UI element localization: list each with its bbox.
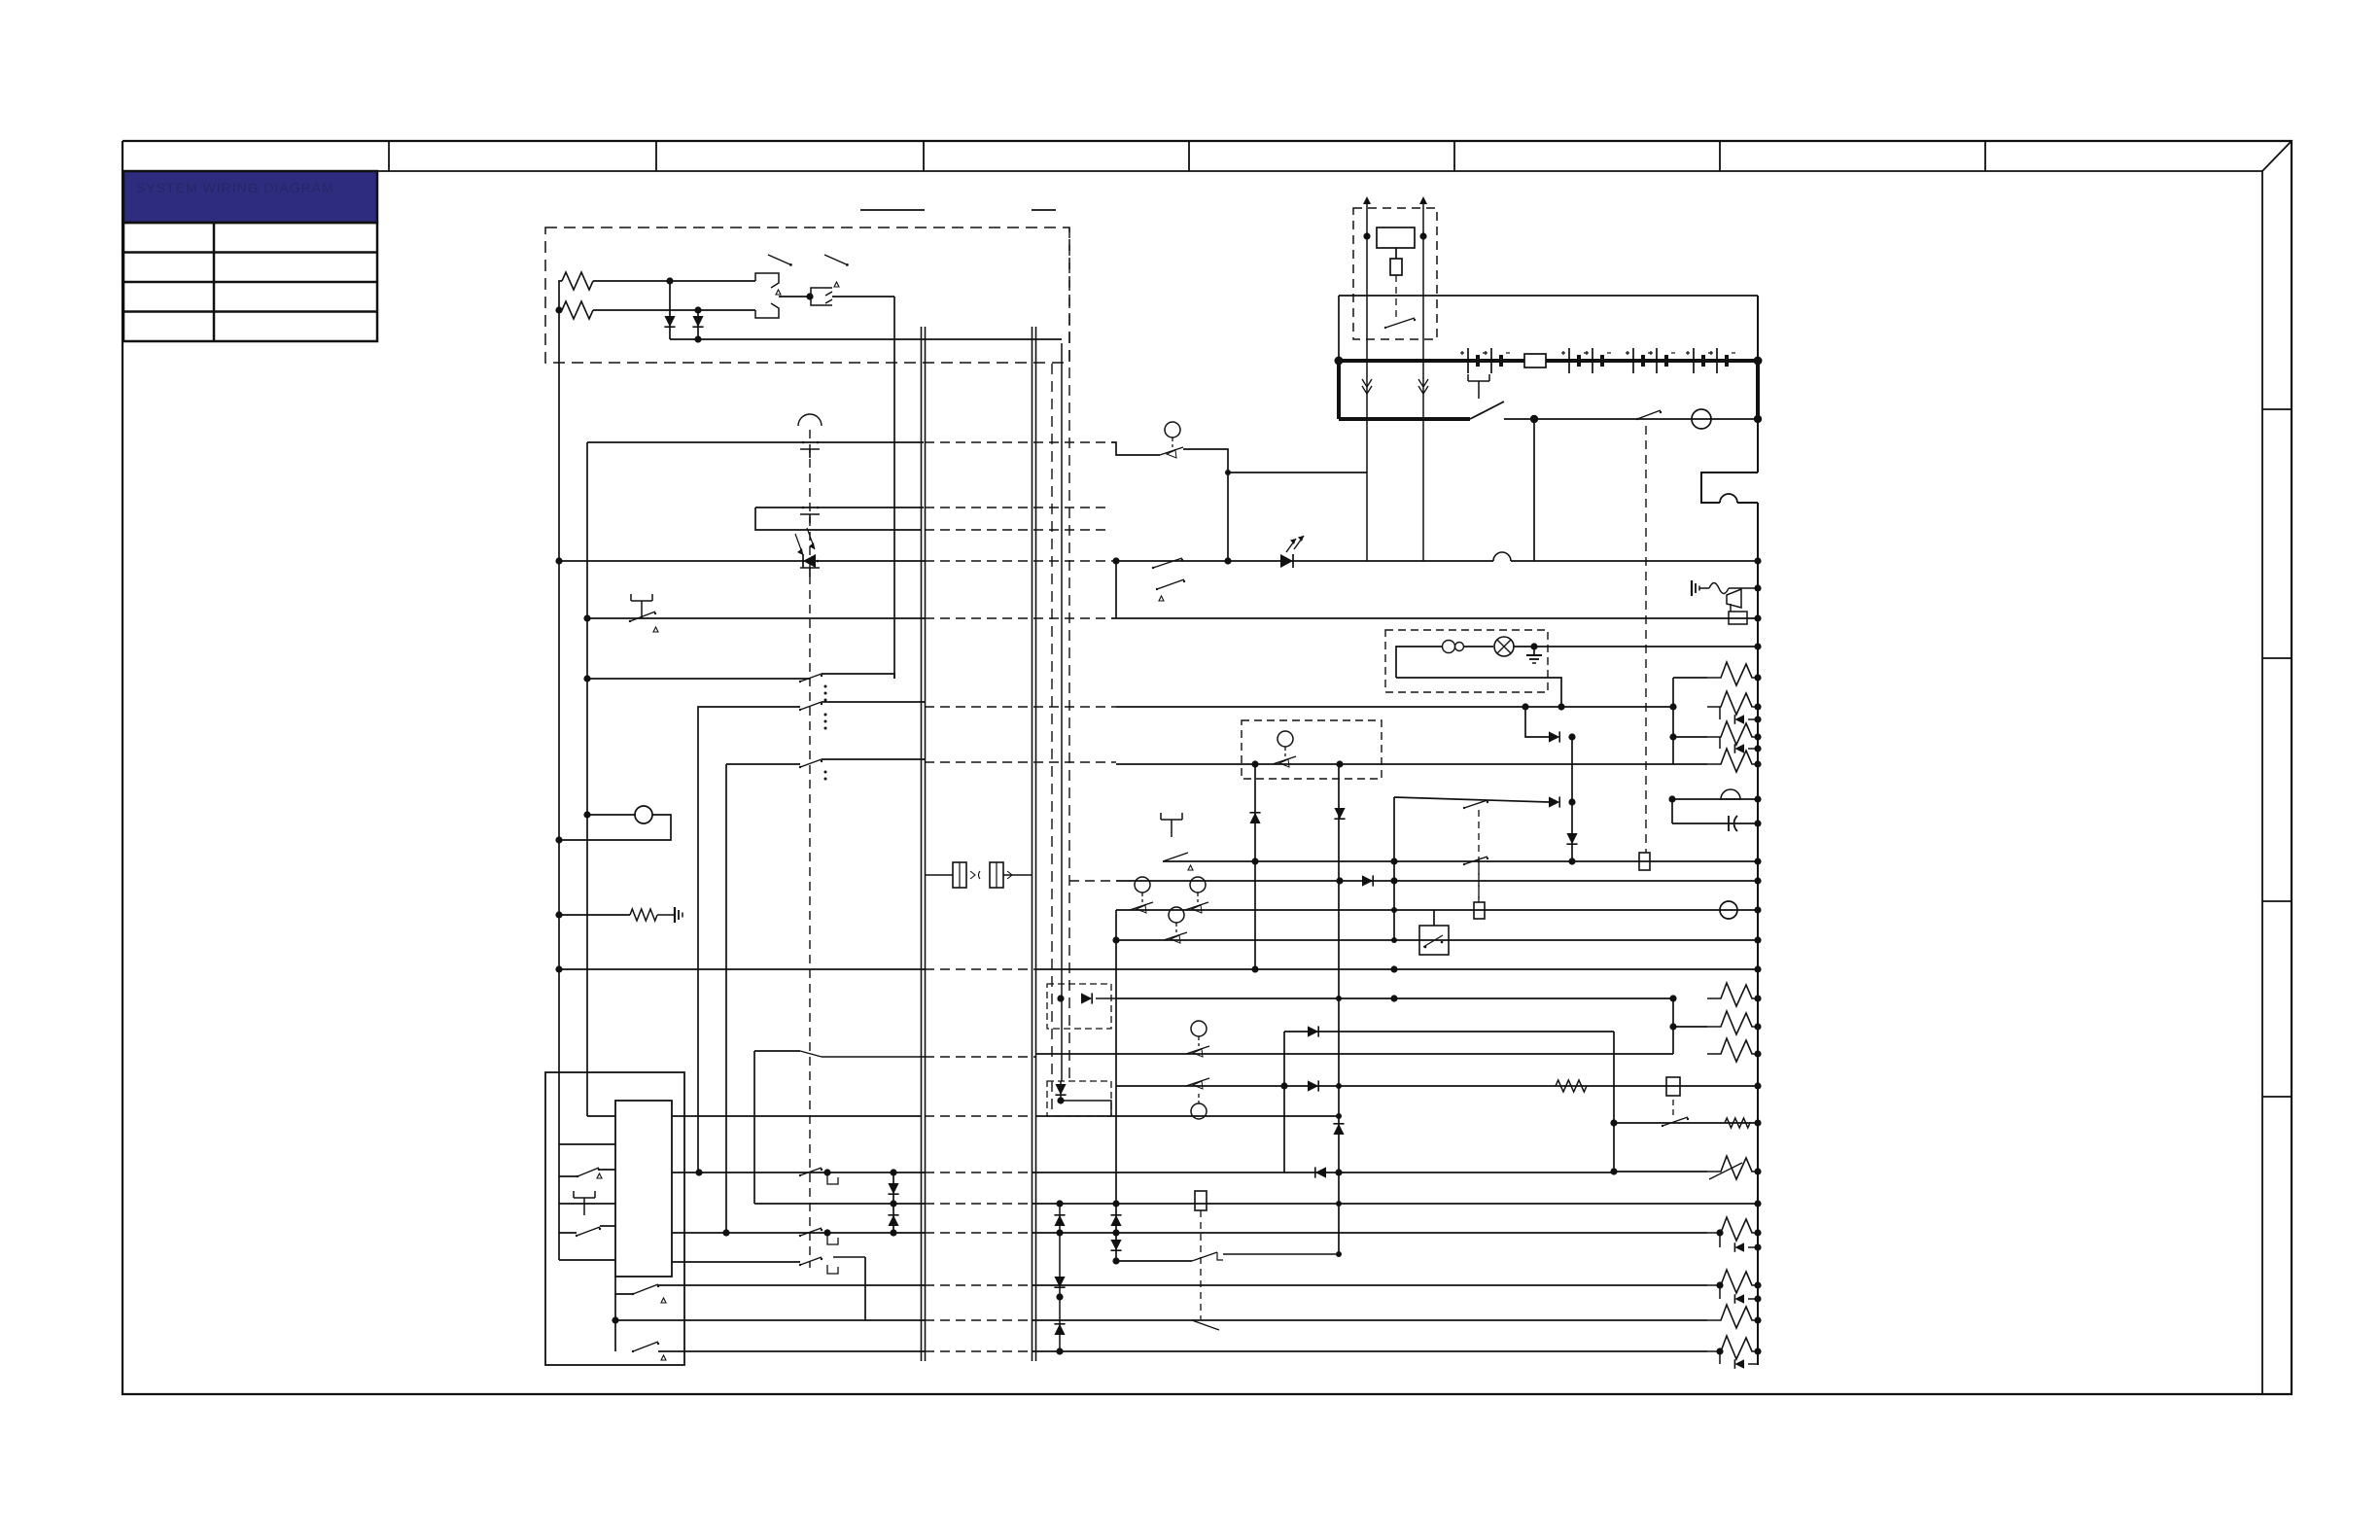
- bulkhead connector pair 1: [922, 327, 926, 1361]
- wire wiper feed drop: [893, 297, 895, 679]
- node starter right: [1419, 232, 1426, 239]
- wiper circuit dashed enclosure: [545, 227, 1069, 363]
- switch S1331: [632, 1284, 659, 1295]
- wire R1 left lead: [559, 281, 562, 310]
- frame right margin tick 3: [2262, 900, 2292, 902]
- wire x1091 lower: [1060, 1081, 1062, 1101]
- wire net786 dashed: [925, 761, 1116, 763]
- oil sender 2: [1164, 907, 1187, 943]
- wire net1358 b: [1032, 1319, 1707, 1321]
- diode D1390: [1734, 1359, 1744, 1369]
- net label tick 1: [860, 209, 925, 211]
- linkage contact 698: [799, 674, 822, 682]
- svg-text:SYSTEM WIRING DIAGRAM: SYSTEM WIRING DIAGRAM: [136, 180, 334, 195]
- node bus431 right: [1754, 415, 1762, 423]
- node net665 right: [1754, 643, 1761, 649]
- switch S1390: [632, 1342, 659, 1352]
- node net1268 c: [1112, 1229, 1119, 1236]
- wire net698 left: [587, 678, 810, 680]
- node x1090 a: [1056, 1200, 1063, 1207]
- pack1 diode stub a: [1720, 707, 1758, 719]
- actuator mark wiper switch: [1159, 596, 1164, 601]
- harness dashed bus 2: [1068, 227, 1070, 1081]
- ECU module box: [615, 1101, 672, 1277]
- fuse main: [1524, 354, 1546, 367]
- actuator S1390: [661, 1355, 666, 1360]
- diode D729: [1549, 731, 1559, 742]
- node D1 top: [666, 277, 673, 284]
- node pack2 mid: [1669, 1023, 1676, 1030]
- wire connector out: [1003, 874, 1032, 876]
- wire key drop: [1533, 419, 1535, 561]
- chevron mark right: [1418, 379, 1428, 394]
- fuse rings: [1443, 641, 1464, 653]
- starter arrow left: [1363, 196, 1371, 236]
- wire net636 left: [587, 617, 925, 619]
- node DboxA in: [1057, 995, 1064, 1001]
- frame top strip divider 2: [655, 141, 657, 171]
- wire net1268 a: [672, 1232, 925, 1234]
- R1390 diode stub: [1720, 1351, 1758, 1364]
- node net825 right: [1568, 798, 1575, 805]
- wire net1148 dashed: [925, 1115, 1032, 1117]
- wire net786 left: [726, 763, 800, 765]
- node net886 b: [1390, 857, 1397, 864]
- wiper connector upper half: [755, 273, 779, 288]
- actuator S1331: [661, 1298, 666, 1303]
- node x1377 1117: [1336, 1083, 1342, 1089]
- wire x1617 drop: [1571, 737, 1573, 861]
- battery cell group 2: [1561, 348, 1588, 373]
- linkage contact 1268: [799, 1228, 822, 1237]
- node res941 left: [555, 911, 562, 918]
- ECU loop A bottom: [559, 1203, 615, 1205]
- wire motor return: [559, 815, 671, 840]
- contact 1297: [1192, 1252, 1223, 1261]
- wire net577 dashed mid: [925, 560, 1116, 562]
- pushbutton PB2: [1161, 813, 1182, 837]
- drawing frame outer border: [122, 141, 2292, 1394]
- wire net936: [1116, 909, 1758, 911]
- ground return bus thick: [1756, 361, 1760, 419]
- wire loop 1358: [614, 1294, 616, 1351]
- node net636 left: [583, 614, 590, 621]
- fuse F886: [1639, 853, 1650, 870]
- node x1660 1155: [1610, 1119, 1617, 1126]
- node pack2 bus c: [1754, 1050, 1761, 1057]
- node lamp ground: [1530, 643, 1537, 649]
- node x1090 d: [1056, 1347, 1063, 1354]
- R1268 diode stub: [1720, 1233, 1758, 1247]
- wire net1084 mid: [1035, 1053, 1673, 1055]
- node x1090 c: [1056, 1293, 1063, 1300]
- wire x1378 drop: [1338, 764, 1340, 1254]
- wire motor838: [587, 814, 636, 816]
- node net577 left: [555, 557, 562, 564]
- resistor pack2 r3: [1707, 1038, 1758, 1062]
- wire battery feed thick: [1339, 359, 1758, 363]
- linkage contact 1084: [800, 1051, 822, 1057]
- diode D1: [664, 316, 675, 327]
- starter arrow right: [1419, 196, 1427, 236]
- title table row line 2: [123, 281, 377, 284]
- node net1206 e: [1335, 1169, 1342, 1175]
- wire x776 drop: [753, 1051, 755, 1204]
- actuator PB2: [1188, 865, 1193, 870]
- wire net486: [1228, 472, 1367, 473]
- wire x1321 drop: [1283, 1032, 1285, 1172]
- node net636 right: [1754, 614, 1761, 621]
- frame right margin tick 1: [2262, 408, 2292, 410]
- node net997 right: [1754, 965, 1761, 972]
- node net605 right: [1754, 584, 1761, 591]
- wire ammeter line: [1504, 418, 1758, 420]
- frame top strip divider 5: [1453, 141, 1455, 171]
- resistor pack1 r3: [1673, 721, 1758, 745]
- wire net1238 b: [1032, 1203, 1758, 1205]
- contact dots 698: [824, 685, 827, 702]
- starter solenoid body: [1377, 227, 1415, 248]
- wire net1390 dashed: [925, 1350, 1032, 1352]
- node x919 mid: [890, 1200, 896, 1207]
- wire net1206 b: [1032, 1172, 1614, 1173]
- node net1206 d: [1610, 1168, 1617, 1174]
- frame top strip divider 1: [388, 141, 390, 171]
- horn speaker: [1727, 589, 1741, 612]
- linkage tcontact 577: [800, 560, 820, 577]
- wire plug link: [779, 296, 811, 297]
- net label tick 2: [1032, 209, 1056, 211]
- node net577 x1263: [1224, 557, 1231, 564]
- diode x1090 up2: [1054, 1324, 1065, 1335]
- title banner text: [136, 180, 334, 195]
- title table column divider: [213, 223, 216, 341]
- fuel sender symbol: [1273, 731, 1296, 767]
- wire net545 dashed: [925, 529, 1111, 531]
- node battery right: [1754, 357, 1763, 366]
- linkage contact 786: [799, 759, 822, 768]
- pushbutton PB2 contact: [1163, 853, 1188, 861]
- title table row line 3: [123, 310, 377, 313]
- relay linkage 1155: [1672, 1100, 1674, 1118]
- LED indicator 2: [1280, 536, 1304, 568]
- pack1 diode a: [1734, 715, 1744, 724]
- horn dome: [1721, 789, 1740, 799]
- wire net829: [1394, 797, 1549, 802]
- node x919 bot: [890, 1229, 896, 1236]
- ECU loop A top: [559, 1170, 615, 1176]
- wire step 729-758: [1525, 707, 1549, 737]
- linkage contact 729: [799, 702, 822, 711]
- ECU contact B: [576, 1227, 601, 1237]
- linkage contact 1298: [799, 1257, 822, 1266]
- wire net1084 bulkhead: [822, 1056, 925, 1058]
- wire switch drop to 636: [1115, 561, 1117, 618]
- node net1238 a: [1112, 1200, 1119, 1207]
- actuator mark PB1: [653, 627, 658, 632]
- node net786 a: [1251, 760, 1258, 767]
- node net967 right: [1754, 936, 1761, 943]
- node net1027 b: [1669, 995, 1676, 1001]
- diode D906: [1362, 875, 1373, 886]
- wire x1291 drop: [1254, 764, 1256, 969]
- node net577 right: [1754, 557, 1761, 564]
- R1322 diode stub: [1720, 1285, 1758, 1299]
- diode D1206: [1315, 1167, 1326, 1177]
- node net906 a: [1336, 877, 1343, 884]
- washer motor: [1720, 901, 1737, 919]
- wire net455 dashed: [925, 441, 1111, 443]
- wire net729 right: [1116, 706, 1673, 708]
- wire DboxB out: [1061, 1101, 1111, 1116]
- diode x919 down: [888, 1183, 898, 1194]
- node net1297 left: [1112, 1257, 1119, 1264]
- wire plug to right: [832, 296, 894, 297]
- relay contact 1155: [1662, 1117, 1689, 1127]
- wire net967: [1116, 939, 1758, 941]
- resistor R1121: [1556, 1080, 1587, 1092]
- wire x890 drop: [864, 1257, 866, 1320]
- node sender step: [1225, 470, 1231, 475]
- wire net1084 left: [754, 1050, 800, 1052]
- wire sender out: [1183, 449, 1228, 561]
- wire ECU pin 1177: [559, 1143, 615, 1145]
- starter switch linkage: [1395, 275, 1397, 321]
- resistor pack1 r2: [1707, 691, 1758, 715]
- node net886 right: [1754, 857, 1761, 864]
- diode D2: [692, 316, 703, 327]
- node net729 x1569: [1522, 703, 1528, 710]
- junction box outer: [545, 1072, 684, 1365]
- node net906 right: [1754, 877, 1761, 884]
- switch lever S2: [824, 255, 849, 266]
- wire pack1 feeder: [1672, 678, 1674, 764]
- thermistor R2x: [1707, 1156, 1758, 1179]
- frame inner right border: [2261, 171, 2263, 1394]
- node net967 left: [1112, 936, 1119, 943]
- lamp circuit wire: [1396, 647, 1442, 678]
- battery cell group 3: [1626, 348, 1652, 373]
- wire net729 dashed: [925, 706, 1116, 708]
- diode x1090 up1: [1054, 1215, 1065, 1226]
- wire net1148 run: [672, 1115, 922, 1117]
- wire horn2 line: [1672, 798, 1758, 800]
- actuator mark S2: [834, 282, 839, 287]
- node net577 x1148: [1112, 557, 1119, 564]
- node net1206 c: [890, 1169, 896, 1175]
- wire net729 mid: [822, 701, 925, 703]
- node net997 b: [1390, 965, 1397, 972]
- wire cap line: [1672, 822, 1758, 824]
- battery cell group 4: [1686, 348, 1712, 373]
- wire net1206 a: [672, 1172, 925, 1173]
- resistor pack1 r4: [1707, 749, 1758, 772]
- node pack1 bus f: [1754, 760, 1761, 767]
- wire net577 right a: [1116, 560, 1493, 562]
- heater motor: [635, 806, 652, 823]
- resistor pack2 r1: [1707, 983, 1758, 1006]
- wire net636 dashed mid: [925, 617, 1111, 619]
- left bus wire x604: [586, 442, 588, 1116]
- linkage tcontact 522: [800, 507, 820, 523]
- frame top strip divider 4: [1188, 141, 1190, 171]
- wire connector feed: [925, 874, 953, 876]
- node x1377 1238: [1336, 1201, 1342, 1207]
- wire net522 dashed: [925, 507, 1111, 508]
- wire net1238 dashed: [925, 1203, 1032, 1205]
- resistor pack1 r1: [1673, 662, 1758, 685]
- wire net1061: [1284, 1031, 1614, 1032]
- node pack1 bus c: [1754, 716, 1761, 722]
- relay linkage dashed: [1478, 810, 1480, 902]
- actuator mark A: [597, 1173, 602, 1178]
- pack1 diode b: [1734, 744, 1744, 753]
- wire net1322 b: [1032, 1284, 1707, 1286]
- suppressor coil: [1709, 583, 1729, 594]
- starter small body: [1390, 259, 1402, 275]
- ECU loop B top: [559, 1226, 615, 1233]
- pushbutton start: [1468, 374, 1489, 399]
- frame corner diagonal: [2262, 141, 2292, 171]
- wire net1268 dashed: [925, 1232, 1032, 1234]
- node net997 left: [555, 965, 562, 972]
- node net1358 right: [1754, 1316, 1761, 1323]
- wire x1434 vertical: [1393, 797, 1395, 940]
- relay box riser: [1433, 910, 1435, 926]
- node pack1 b: [1669, 733, 1676, 740]
- relay coil 1121: [1666, 1077, 1680, 1096]
- contact jog 1268: [827, 1236, 838, 1244]
- battery cell group 3b: [1649, 348, 1675, 373]
- node net1268 right: [1754, 1229, 1761, 1236]
- frame top strip divider 6: [1719, 141, 1721, 171]
- fuel sender dashed box: [1242, 720, 1382, 779]
- node pack1 bus e: [1754, 745, 1761, 752]
- wire net1121: [1116, 1085, 1758, 1087]
- bulkhead connector pair 2: [1032, 327, 1036, 1361]
- battery cell group 2b: [1585, 348, 1611, 373]
- diode x1148 up: [1110, 1215, 1121, 1226]
- wire res941 gnd: [657, 914, 675, 916]
- node pack1 bus d: [1754, 733, 1761, 740]
- ECU contact A: [577, 1168, 600, 1177]
- starter body stem: [1395, 248, 1397, 259]
- resistor pack2 r2: [1673, 1011, 1758, 1034]
- wire net997 left: [559, 968, 925, 970]
- diode DboxA: [1081, 993, 1092, 1003]
- node x1434 936: [1391, 907, 1397, 913]
- ground bus jog: [1701, 472, 1758, 503]
- interlock contact: [1636, 410, 1662, 420]
- node net1322 right: [1754, 1281, 1761, 1288]
- wire R2 run: [593, 309, 755, 311]
- pushbutton PB1: [631, 594, 652, 618]
- contact jog 1298: [827, 1265, 838, 1274]
- wire ECU pin 1148: [587, 1115, 615, 1117]
- washer sender: [1160, 422, 1183, 458]
- starter dashed enclosure: [1353, 208, 1437, 339]
- title block blue banner: [123, 171, 377, 223]
- wire x1148 collector: [1115, 910, 1117, 1261]
- wire net577 right b: [1511, 560, 1758, 562]
- inline connector pair: [953, 862, 1012, 888]
- node x1377 1290: [1336, 1251, 1342, 1257]
- fuse F936: [1474, 902, 1485, 919]
- wire net522: [755, 507, 924, 508]
- wire net1238 a: [754, 1203, 925, 1205]
- diode x1090 down: [1054, 1277, 1065, 1287]
- wire DboxA out: [1096, 997, 1116, 999]
- wire net786 right: [1116, 763, 1707, 765]
- node D2 top: [694, 306, 701, 313]
- ground G941: [675, 907, 682, 923]
- relay contact 886: [1463, 857, 1488, 865]
- node net1206 b: [823, 1169, 830, 1175]
- linkage contact 1206: [799, 1168, 822, 1176]
- wire net1358 dashed: [925, 1319, 1032, 1321]
- battery cell group 1: [1460, 348, 1487, 373]
- interlock linkage dashed: [1645, 426, 1647, 853]
- wire battery left drop thick: [1337, 361, 1341, 419]
- battery cell group 4b: [1709, 348, 1735, 373]
- node net847 right: [1754, 820, 1761, 826]
- node x1617 top: [1568, 733, 1575, 740]
- LED indicator 1: [795, 528, 816, 568]
- diode up x1291: [1249, 813, 1260, 823]
- wire starter right drop: [1422, 236, 1424, 561]
- wire sender feed corner: [1111, 442, 1160, 455]
- fuse F1297: [1195, 1191, 1207, 1210]
- wire net1148 mid: [1035, 1115, 1339, 1117]
- node net1336 right: [1754, 1295, 1761, 1302]
- starter switch contact: [1384, 318, 1416, 329]
- node horn2 left: [1668, 795, 1675, 802]
- node x1434 967: [1391, 937, 1397, 943]
- relay box: [1419, 926, 1449, 955]
- wire net698 to bulkhead: [822, 674, 894, 679]
- wire net1027: [1116, 997, 1673, 999]
- ground return bus upper: [1757, 296, 1759, 472]
- node pack2 bus a: [1754, 995, 1761, 1001]
- wire net906 dashed: [1069, 880, 1116, 882]
- node net1283 right: [1754, 1243, 1761, 1250]
- harness dashed bus 1: [1051, 364, 1053, 1114]
- linkage tcontact 455: [800, 441, 820, 458]
- wire res941: [559, 914, 630, 916]
- pack1 diode stub b: [1720, 737, 1758, 749]
- node D2 bottom: [694, 335, 701, 342]
- capacitor C1: [1729, 816, 1737, 831]
- node net886 c: [1568, 857, 1575, 864]
- node x1377 1027: [1336, 996, 1342, 1001]
- node net1238 right: [1754, 1200, 1761, 1207]
- fuse linkage dashed: [1200, 1210, 1202, 1319]
- node starter left: [1363, 232, 1370, 239]
- node x1090 b: [1056, 1229, 1063, 1236]
- node pack1 a: [1669, 703, 1676, 710]
- diode D1268: [1734, 1242, 1744, 1252]
- node net698 left: [583, 675, 590, 682]
- diode D1121: [1308, 1080, 1318, 1091]
- actuator mark S1: [776, 290, 781, 295]
- dome lamp: [1494, 637, 1514, 656]
- wire net1297: [1116, 1260, 1192, 1262]
- frame top strip divider 3: [923, 141, 925, 171]
- wire D2 drop: [697, 310, 699, 339]
- wire net1268 b: [1032, 1232, 1707, 1234]
- wire net636 right: [1111, 617, 1758, 619]
- resistor R1268: [1707, 1217, 1758, 1241]
